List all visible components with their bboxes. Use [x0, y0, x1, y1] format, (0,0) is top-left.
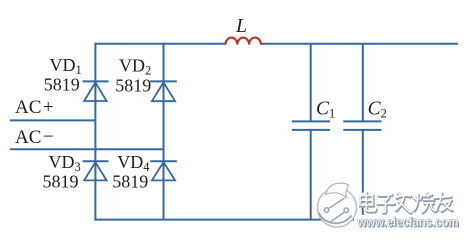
- watermark chinese text 电子发烧友: [360, 193, 452, 214]
- diode VD4: [150, 161, 177, 180]
- watermark logo disc: [318, 183, 357, 227]
- svg-text:L: L: [235, 15, 247, 37]
- wire top rail left of inductor: [94, 43, 225, 45]
- svg-text:5819: 5819: [44, 75, 80, 95]
- svg-text:5819: 5819: [43, 172, 79, 192]
- wire left branch: [94, 43, 96, 220]
- svg-text:AC−: AC−: [15, 127, 54, 149]
- wire C2 branch lower: [362, 130, 364, 220]
- svg-text:www.elecfans.com: www.elecfans.com: [357, 215, 459, 230]
- watermark logo droplet tail: [326, 183, 349, 197]
- diode VD3: [83, 161, 109, 180]
- wire C1 branch upper: [310, 44, 312, 122]
- wire bottom rail: [94, 219, 456, 221]
- diode VD2: [150, 81, 177, 101]
- svg-text:5819: 5819: [112, 172, 148, 192]
- wire right branch: [163, 43, 165, 220]
- capacitor C2: [343, 121, 381, 129]
- watermark logo nodes and link: [324, 198, 348, 223]
- wire AC+ input: [10, 119, 95, 121]
- diode VD1: [83, 81, 109, 101]
- wire AC- input: [10, 148, 164, 150]
- capacitor C1: [292, 121, 330, 129]
- wire top rail right of inductor: [261, 43, 458, 45]
- inductor L: [226, 38, 262, 45]
- wire C1 branch lower: [310, 130, 312, 220]
- svg-text:5819: 5819: [115, 75, 151, 95]
- watermark url www.elecfans.com: [354, 215, 461, 229]
- svg-text:AC+: AC+: [15, 97, 54, 118]
- wire C2 branch upper: [362, 44, 364, 122]
